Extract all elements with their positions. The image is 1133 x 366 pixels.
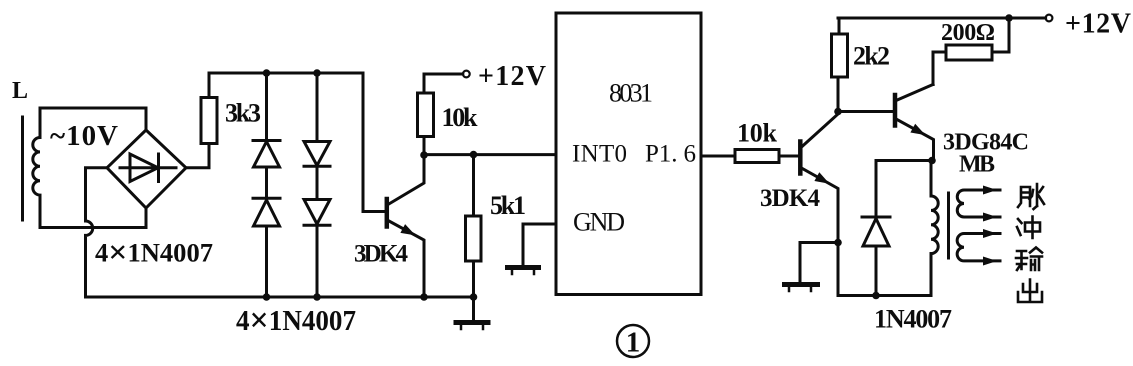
terminal +12V (left) [463,71,470,78]
transistor Q2 emitter [802,168,839,243]
svg-text:1N4007: 1N4007 [874,305,952,334]
secondary lead arrow 3 [983,229,997,238]
node Q3 emitter / diode / primary [928,157,936,165]
transistor Q1 3DK4 base bar [385,199,390,227]
ground (below 5k1) [472,297,475,321]
wire bottom rail left [86,296,474,299]
node diode bottom [872,292,880,300]
transistor Q3 collector [896,85,933,101]
svg-text:~10V: ~10V [50,120,118,152]
svg-text:MB: MB [959,152,995,178]
resistor 5k1 [472,155,475,216]
wire Q2 emitter to ground [800,243,838,283]
chinese label 脉 [1018,184,1044,209]
node 10k/INT0/collector [420,151,428,159]
bridge inner diode [120,154,176,182]
svg-text:INT0: INT0 [572,141,627,168]
inductor L coil [33,108,40,228]
transformer T1 secondary winding 1 [957,190,1000,217]
wire emitter node to diode [876,161,932,218]
wire 200ohm left to Q3 collector [933,52,946,85]
transistor Q2 collector [802,77,839,147]
svg-text:8031: 8031 [609,79,653,108]
svg-text:3DK4: 3DK4 [760,185,821,212]
ground (8031 GND) [508,265,539,270]
wire coil top to bridge top [40,108,146,130]
node bottom rail col2 [313,293,321,301]
svg-text:10k: 10k [737,119,778,148]
node Q2 collector / 2k2 [834,108,842,116]
secondary lead arrow 1 [983,186,997,195]
resistor 200ohm [946,45,992,60]
node top rail / column1 [263,69,271,77]
resistor 3k3 [201,98,217,144]
svg-text:+12V: +12V [1065,9,1131,40]
wire bridge right to resistor 3k3 [186,144,209,168]
svg-text:4×1N4007: 4×1N4007 [95,235,213,271]
resistor 10k (left) [423,137,426,156]
svg-text:5k1: 5k1 [490,191,526,220]
transformer T1 core [947,193,950,258]
chinese label 出 [1018,280,1042,303]
node 5k1 top [470,151,478,159]
node bottom rail emitter [420,293,428,301]
diode D5 1N4007 [862,216,890,219]
svg-text:2k2: 2k2 [853,42,890,71]
transistor Q3 emitter [896,119,934,159]
transistor Q1 collector [388,155,424,205]
circled figure number 1 [617,325,649,357]
transistor Q1 emitter arrow [400,224,415,235]
wire coil bottom to bridge bottom [40,208,146,228]
wire 200ohm right to top rail [992,18,1009,52]
wire INT0 [424,153,556,156]
resistor 2k2 [832,34,848,77]
wire 3k3 top to top rail [208,73,211,98]
node bottom rail 5k1 [470,293,478,301]
diode column D3 D4 (right column) [316,73,319,142]
secondary lead arrow 2 [983,213,997,222]
transformer core bar (left) [21,117,24,220]
wire top rail [209,72,363,75]
svg-text:1: 1 [626,327,641,359]
svg-text:4×1N4007: 4×1N4007 [236,301,356,340]
chinese label 输 [1016,248,1042,271]
wire P1.6 to 10k [701,155,735,158]
chinese label 冲 [1017,217,1040,239]
wire bridge left corner down with hop [86,168,108,297]
wire top rail right [838,17,1046,20]
svg-text:3DK4: 3DK4 [354,241,409,268]
transistor Q1 emitter [388,221,424,298]
transformer T1 secondary winding 2 [957,234,1000,261]
node bottom rail col1 [263,293,271,301]
transistor Q2 emitter arrow [814,172,829,184]
svg-text:P1. 6: P1. 6 [645,141,696,168]
svg-text:3k3: 3k3 [225,99,261,128]
wire bottom rail right [838,243,931,296]
diode column D1 D2 (left column) [265,73,268,140]
secondary lead arrow 4 [983,257,997,266]
svg-text:200Ω: 200Ω [941,20,995,46]
svg-text:+12V: +12V [478,61,546,92]
IC U1 8031 box [556,13,701,295]
node Q2 emitter / gnd [834,239,842,247]
wire 10k to +12V terminal [424,74,463,93]
transistor Q3 3DG84C base bar [893,95,898,126]
node top rail / column2 [313,69,321,77]
bridge rectifier diamond [107,130,186,208]
transformer T1 primary coil [931,161,938,254]
terminal +12V (right) [1046,15,1053,22]
transistor Q2 3DK4 base bar [798,142,803,174]
svg-text:L: L [12,78,28,104]
wire Q2 base2 rail [838,110,893,113]
node 200ohm / top rail [1005,14,1013,22]
svg-text:GND: GND [573,208,625,237]
svg-text:10k: 10k [442,103,479,132]
wire top rail down to Q1 base [363,73,385,212]
ground (Q2 emitter) [785,282,818,287]
resistor 10k (right) [735,150,779,163]
wire GND pin [523,224,556,265]
transistor Q3 emitter arrow [910,124,925,135]
